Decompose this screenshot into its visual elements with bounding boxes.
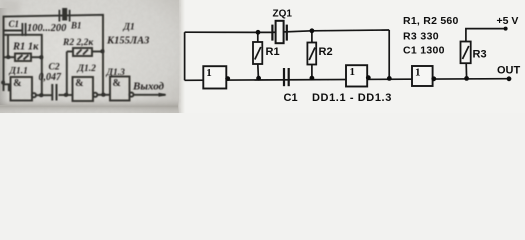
svg-text:1: 1 bbox=[415, 67, 421, 79]
svg-text:ZQ1: ZQ1 bbox=[273, 9, 293, 20]
svg-text:1: 1 bbox=[206, 67, 212, 79]
svg-text:Д1: Д1 bbox=[123, 23, 135, 33]
svg-text:Д1.2: Д1.2 bbox=[77, 64, 97, 74]
svg-text:0,047: 0,047 bbox=[39, 72, 63, 83]
svg-text:Выход: Выход bbox=[132, 81, 165, 93]
svg-text:В1: В1 bbox=[70, 21, 82, 31]
svg-text:R3 330: R3 330 bbox=[403, 30, 439, 42]
svg-text:R2: R2 bbox=[319, 46, 333, 58]
svg-text:1: 1 bbox=[350, 66, 356, 78]
svg-text:R1: R1 bbox=[266, 46, 280, 58]
svg-text:К155ЛА3: К155ЛА3 bbox=[106, 36, 149, 47]
svg-text:100...200: 100...200 bbox=[27, 23, 67, 34]
svg-text:C1: C1 bbox=[284, 92, 298, 104]
svg-text:&: & bbox=[113, 78, 121, 89]
svg-text:DD1.1 - DD1.3: DD1.1 - DD1.3 bbox=[312, 92, 392, 104]
svg-text:С1: С1 bbox=[9, 19, 20, 29]
svg-text:&: & bbox=[75, 78, 83, 89]
svg-text:Д1.1: Д1.1 bbox=[9, 67, 28, 77]
svg-text:R1, R2 560: R1, R2 560 bbox=[403, 15, 459, 27]
svg-text:+5 V: +5 V bbox=[497, 15, 519, 27]
svg-text:R1 1к: R1 1к bbox=[12, 42, 39, 53]
svg-text:&: & bbox=[13, 78, 21, 89]
svg-text:OUT: OUT bbox=[497, 65, 521, 77]
svg-text:С2: С2 bbox=[49, 63, 60, 73]
svg-text:R2 2,2к: R2 2,2к bbox=[62, 38, 94, 48]
svg-text:C1 1300: C1 1300 bbox=[403, 44, 445, 56]
svg-text:R3: R3 bbox=[473, 49, 487, 61]
svg-text:Д1.3: Д1.3 bbox=[106, 68, 126, 78]
